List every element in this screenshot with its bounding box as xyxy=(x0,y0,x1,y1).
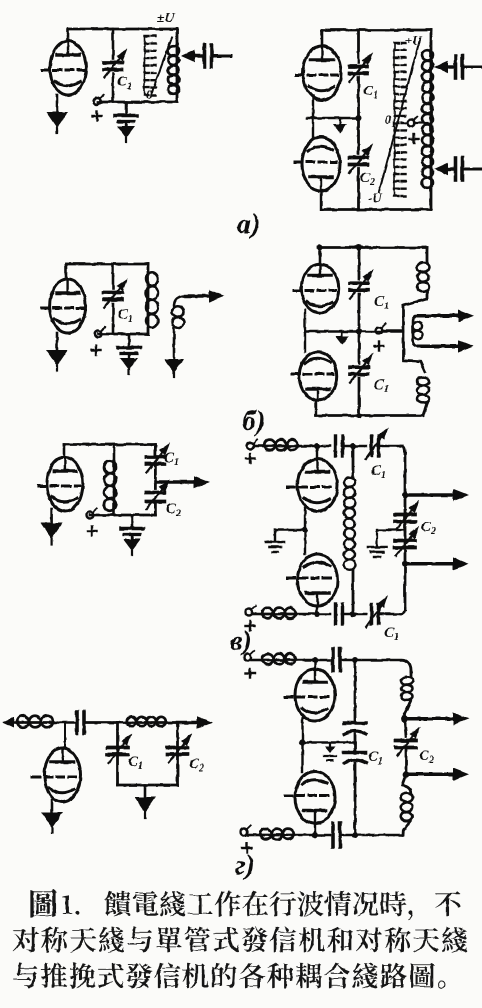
svg-text:C1: C1 xyxy=(368,749,383,767)
svg-text:б): б) xyxy=(242,406,265,437)
svg-text:0: 0 xyxy=(146,87,153,102)
svg-text:а): а) xyxy=(237,209,260,240)
svg-text:C1: C1 xyxy=(118,307,133,325)
svg-text:+U: +U xyxy=(405,33,422,48)
svg-text:C1: C1 xyxy=(363,83,378,101)
svg-text:в): в) xyxy=(230,626,252,657)
svg-text:C2: C2 xyxy=(189,756,204,774)
svg-text:C1: C1 xyxy=(374,294,389,312)
svg-text:±U: ±U xyxy=(157,11,176,26)
svg-text:C1: C1 xyxy=(128,754,143,772)
svg-text:C2: C2 xyxy=(166,501,181,519)
svg-text:г): г) xyxy=(235,850,255,881)
svg-text:C1: C1 xyxy=(371,463,386,481)
svg-text:-U: -U xyxy=(368,190,382,205)
svg-text:C1: C1 xyxy=(374,377,389,395)
svg-text:C2: C2 xyxy=(419,748,434,766)
svg-text:C2: C2 xyxy=(360,170,375,188)
svg-text:C1: C1 xyxy=(164,450,179,468)
svg-text:C2: C2 xyxy=(421,519,436,537)
svg-text:C1: C1 xyxy=(384,625,399,643)
svg-text:C1: C1 xyxy=(117,74,132,92)
